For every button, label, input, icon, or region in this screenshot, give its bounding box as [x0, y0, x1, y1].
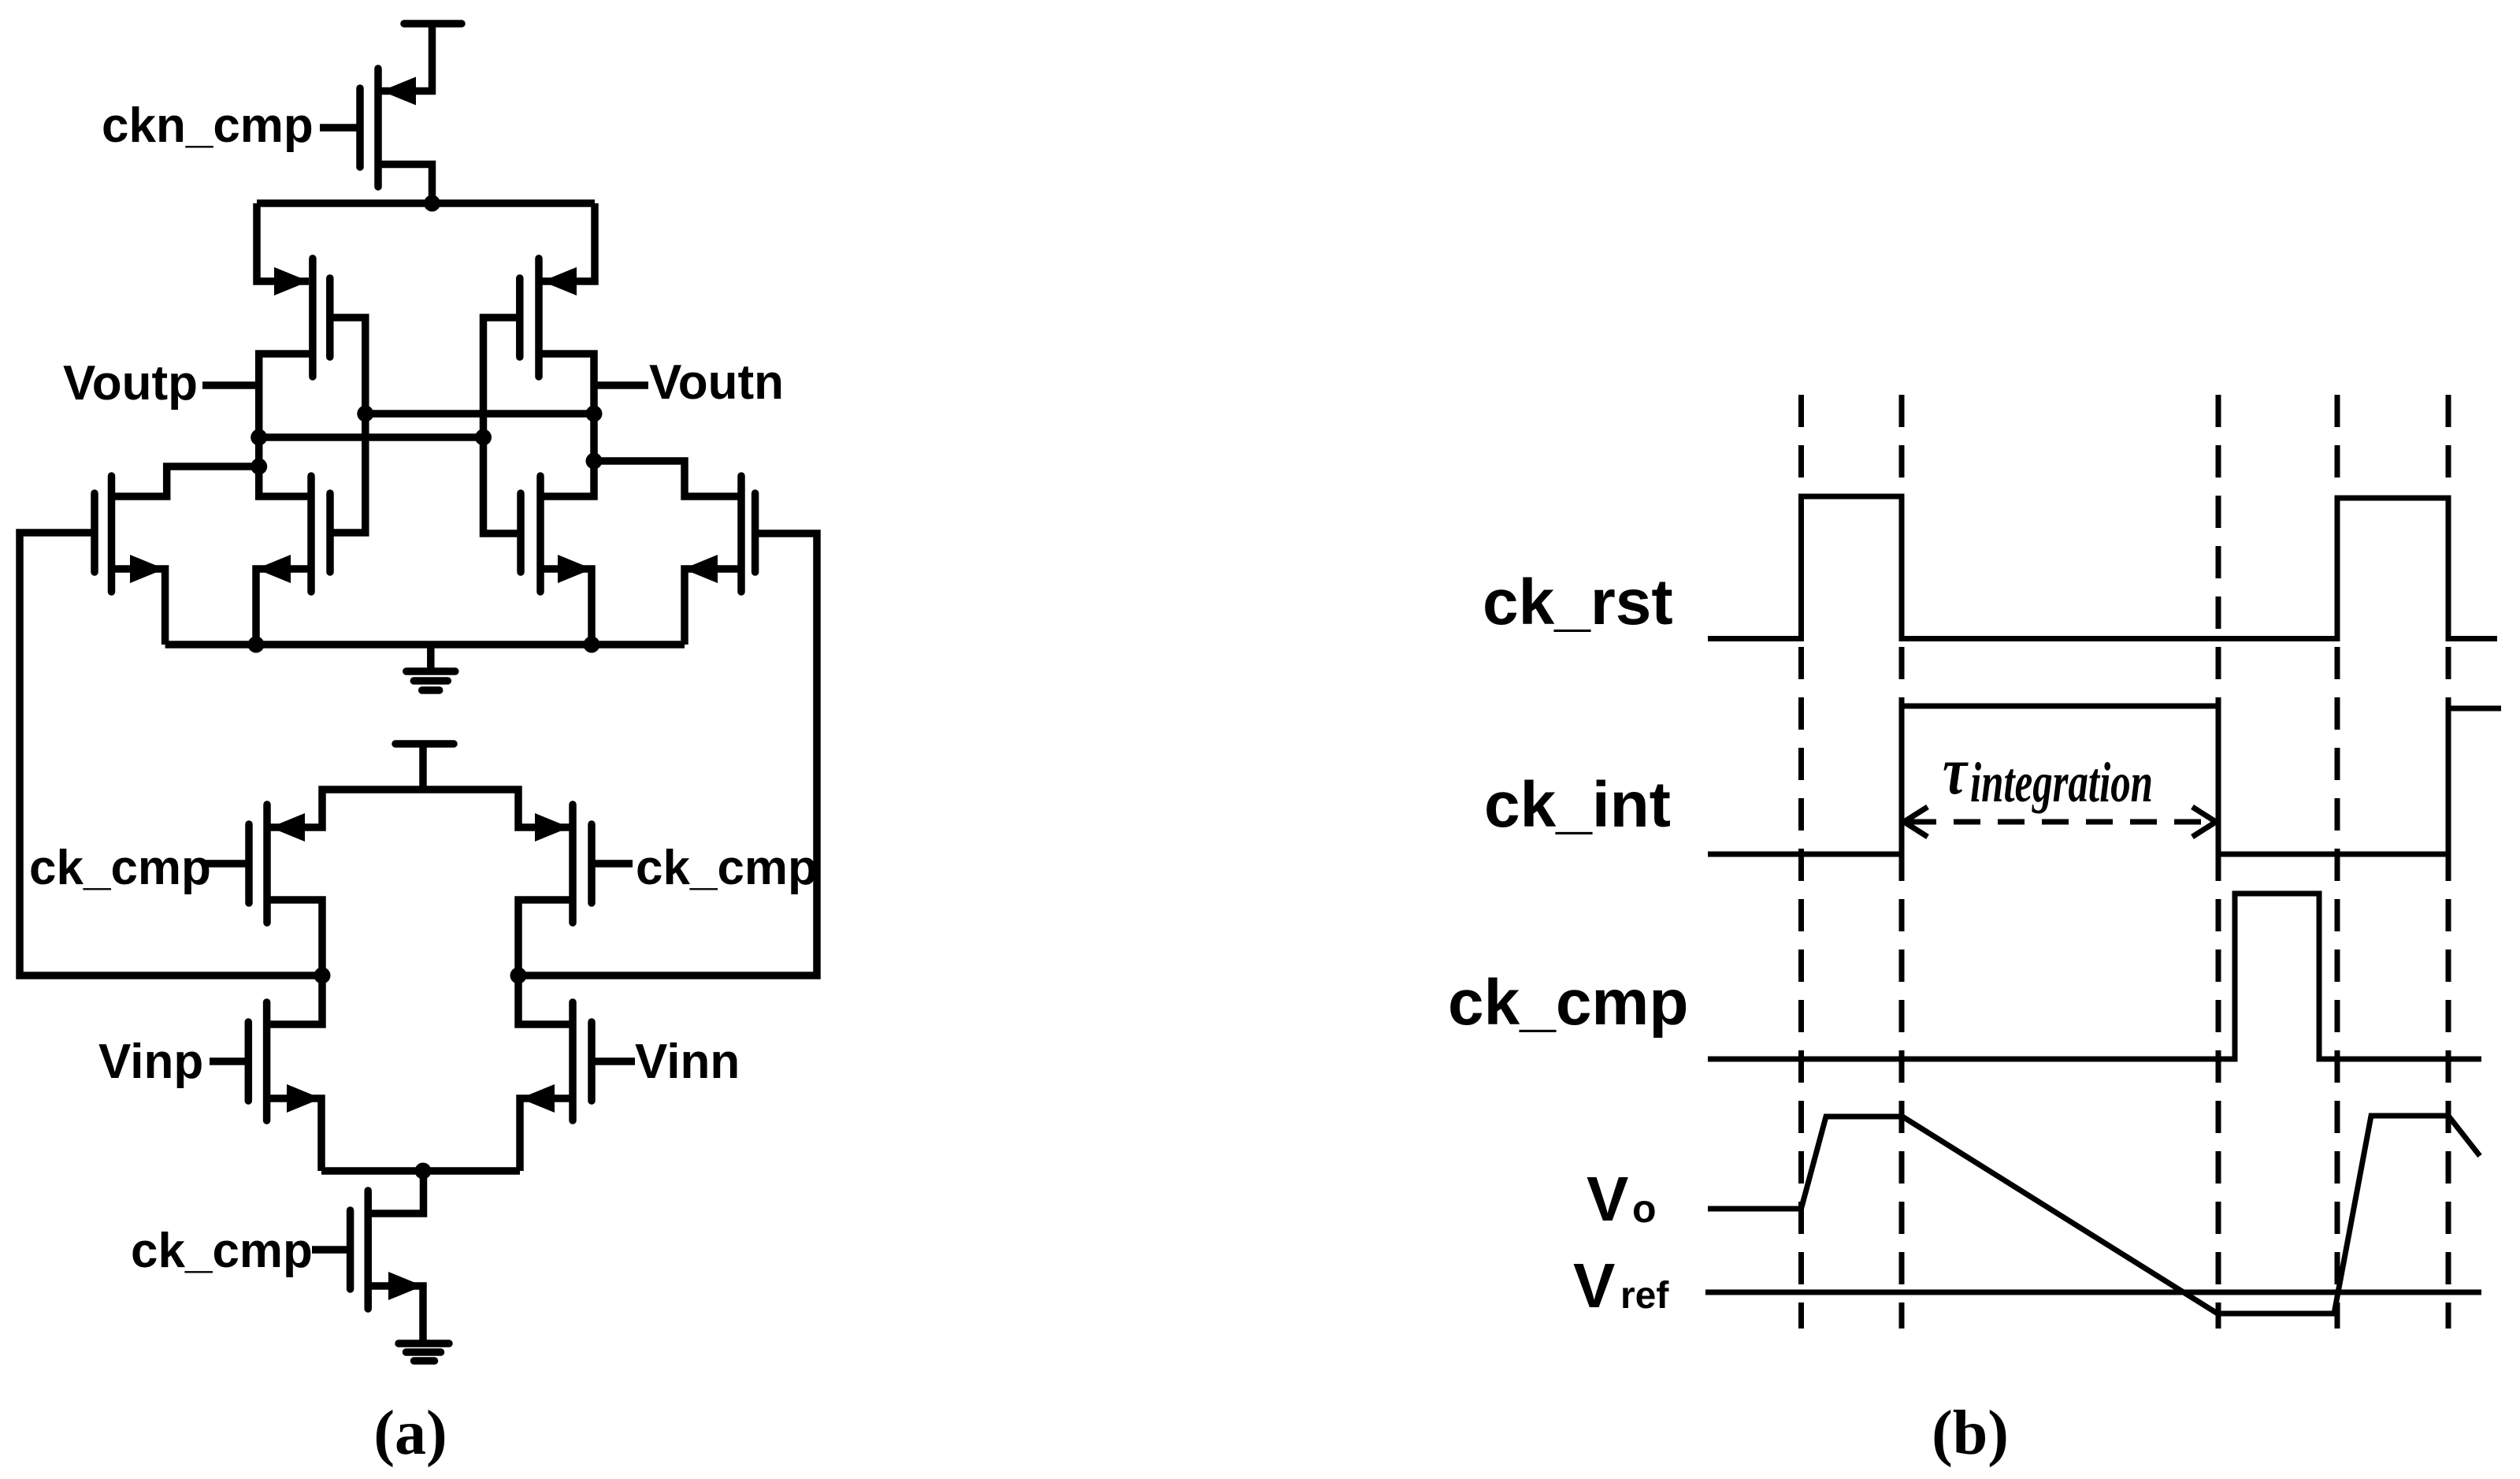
svg-text:(b): (b) [1932, 1399, 2009, 1468]
svg-text:Voutn: Voutn [649, 355, 784, 410]
svg-text:Voutp: Voutp [63, 356, 198, 411]
svg-text:τ: τ [1943, 733, 1969, 808]
svg-text:ck_cmp: ck_cmp [131, 1224, 313, 1278]
svg-text:integration: integration [1970, 751, 2153, 814]
svg-text:o: o [1632, 1187, 1657, 1231]
svg-text:(a): (a) [373, 1399, 447, 1468]
svg-text:ck_cmp: ck_cmp [29, 841, 211, 895]
svg-text:ref: ref [1620, 1275, 1669, 1317]
svg-text:ck_cmp: ck_cmp [636, 841, 818, 895]
svg-text:ck_int: ck_int [1484, 769, 1671, 841]
svg-text:Vinp: Vinp [98, 1035, 203, 1089]
svg-text:V: V [1587, 1164, 1628, 1234]
svg-text:ck_cmp: ck_cmp [1448, 967, 1688, 1039]
svg-text:Vinn: Vinn [635, 1035, 740, 1089]
svg-text:V: V [1573, 1250, 1615, 1321]
svg-text:ckn_cmp: ckn_cmp [102, 98, 314, 153]
svg-text:ck_rst: ck_rst [1483, 567, 1673, 638]
